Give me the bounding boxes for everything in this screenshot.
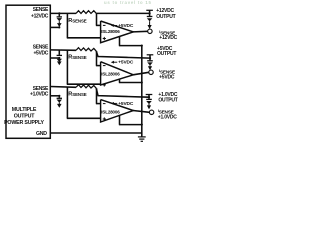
svg-text:ISL28006: ISL28006 — [101, 72, 120, 77]
svg-text:+5VDC: +5VDC — [159, 75, 175, 81]
op-amp U3 inverting input sign — [103, 103, 106, 105]
wire to op-amp U3 non-inverting input — [66, 87, 68, 119]
wire GND from supply to ground bus — [50, 132, 142, 134]
op-amp U3 ISL28006 triangle — [101, 100, 134, 122]
wire +V stub 2 — [50, 57, 59, 59]
svg-text:POWER SUPPLY: POWER SUPPLY — [4, 120, 44, 126]
op-amp U2 non-inverting input sign — [103, 84, 106, 86]
op-amp U2 inverting input sign — [103, 65, 106, 67]
svg-text:RSENSE: RSENSE — [68, 18, 87, 24]
op-amp U2 ground pin wire to bus — [119, 79, 121, 83]
svg-text:+12VDC: +12VDC — [156, 8, 174, 14]
wire SENSE rail 2 from supply to RSENSE — [50, 49, 76, 51]
resistor RSENSE3 zigzag — [76, 85, 96, 89]
junction dot at ground bus block 3 — [141, 124, 143, 126]
wire to op-amp U2 non-inverting input — [66, 50, 68, 84]
output terminal T bar 3 — [146, 94, 153, 96]
output diode and arrow to ISENSE terminal 1 — [147, 13, 153, 29]
svg-text:SENSE: SENSE — [33, 7, 49, 13]
clamp diode and arrow on rail 3 column — [57, 96, 62, 108]
junction dot at ground bus block 2 — [141, 81, 143, 83]
svg-text:ISENSE: ISENSE — [159, 68, 175, 74]
svg-text:OUTPUT: OUTPUT — [156, 14, 175, 20]
junction dot V stub 1 — [58, 26, 60, 28]
svg-text:+1.0VDC: +1.0VDC — [30, 91, 49, 97]
output terminal T bar 2 — [147, 54, 154, 56]
label ISENSE +12VDC — [159, 29, 177, 41]
wire op-amp U3 output to ISENSE terminal — [133, 111, 150, 113]
label ISENSE +5VDC — [159, 68, 175, 80]
junction dot output terminal 3 — [148, 96, 150, 98]
svg-text:RSENSE: RSENSE — [68, 91, 87, 97]
junction dot V stub 3 — [58, 95, 60, 97]
op-amp U1 non-inverting input sign — [103, 38, 106, 40]
output terminal T bar 1 — [146, 9, 153, 11]
ISENSE2 output terminal circle — [149, 70, 153, 74]
svg-text:+5VDC: +5VDC — [118, 60, 134, 66]
label ISENSE +1.0VDC — [158, 108, 177, 120]
ground bus vertical wire — [141, 46, 143, 133]
output diode and arrow to ISENSE terminal 3 — [146, 97, 152, 109]
svg-text:+5VDC: +5VDC — [33, 51, 48, 57]
op-amp U2 +5VDC supply arrow — [111, 61, 117, 64]
junction dot output terminal 1 — [149, 12, 151, 14]
svg-text:+1.0VDC: +1.0VDC — [158, 115, 177, 121]
op-amp U1 ground pin wire to bus — [119, 36, 121, 46]
svg-text:+12VDC: +12VDC — [31, 13, 49, 19]
wire +V stub 1 — [50, 26, 59, 28]
resistor RSENSE2 zigzag — [76, 48, 96, 52]
wire op-amp U2 output to ISENSE terminal — [133, 72, 149, 75]
wire to op-amp U1 inverting input — [96, 13, 98, 25]
svg-text:+5VDC: +5VDC — [118, 23, 134, 29]
junction dot output terminal 2 — [149, 57, 151, 59]
svg-text:+5VDC: +5VDC — [118, 101, 134, 107]
op-amp U2 ISL28006 triangle — [101, 62, 134, 85]
power supply box outline — [6, 5, 50, 138]
svg-text:OUTPUT: OUTPUT — [14, 114, 36, 120]
output diode and arrow to ISENSE terminal 2 — [147, 58, 153, 70]
svg-text:MULTIPLE: MULTIPLE — [12, 107, 37, 113]
ISENSE3 output terminal circle — [149, 110, 153, 114]
wire +V stub 3 — [50, 95, 59, 97]
power supply title text — [4, 107, 44, 126]
label +5VDC OUTPUT — [157, 46, 176, 57]
clamp diode and arrow on rail 2 column — [57, 50, 62, 65]
wire SENSE rail 3 from supply to RSENSE — [50, 86, 76, 89]
junction dot SENSE1 column — [58, 12, 60, 14]
ISENSE1 output terminal circle — [148, 29, 152, 33]
junction dot at ground bus block 1 — [141, 45, 143, 47]
wire to op-amp U1 non-inverting input — [66, 13, 68, 37]
svg-text:ISENSE: ISENSE — [158, 108, 174, 114]
svg-text:ISL28006: ISL28006 — [101, 29, 120, 34]
op-amp U1 +5VDC supply arrow — [111, 24, 117, 27]
op-amp U1 ISL28006 triangle — [101, 21, 134, 43]
ground symbol — [138, 133, 146, 141]
svg-text:SENSE: SENSE — [33, 44, 49, 50]
svg-text:RSENSE: RSENSE — [68, 55, 87, 61]
label +12VDC OUTPUT — [156, 8, 175, 20]
wire to op-amp U2 inverting input — [96, 51, 98, 65]
label +1.0VDC OUTPUT — [158, 92, 177, 103]
wire op-amp U1 output to ISENSE terminal — [133, 30, 148, 33]
resistor RSENSE1 zigzag — [76, 11, 96, 14]
wire SENSE rail 1 from supply to RSENSE — [50, 12, 76, 14]
wire SENSE rail 2 from RSENSE to output terminal — [96, 51, 150, 58]
svg-text:+12VDC: +12VDC — [159, 35, 177, 41]
svg-text:OUTPUT: OUTPUT — [158, 98, 177, 104]
svg-text:GND: GND — [36, 131, 47, 137]
wire SENSE rail 3 from RSENSE to output terminal — [96, 88, 149, 97]
svg-text:OUTPUT: OUTPUT — [157, 51, 176, 57]
clamp diode and arrow on rail 1 column — [57, 13, 62, 27]
junction dot V stub 2 — [58, 57, 60, 59]
op-amp U1 inverting input sign — [103, 24, 106, 26]
svg-text:ISL28006: ISL28006 — [101, 110, 120, 115]
svg-text:us to travel to 15: us to travel to 15 — [104, 0, 152, 5]
wire SENSE rail 1 from RSENSE to output terminal — [96, 12, 149, 14]
op-amp U3 +5VDC supply arrow — [111, 102, 117, 105]
op-amp U3 ground pin wire to bus — [119, 115, 121, 125]
wire to op-amp U3 inverting input — [96, 88, 98, 103]
op-amp U3 non-inverting input sign — [103, 118, 106, 120]
